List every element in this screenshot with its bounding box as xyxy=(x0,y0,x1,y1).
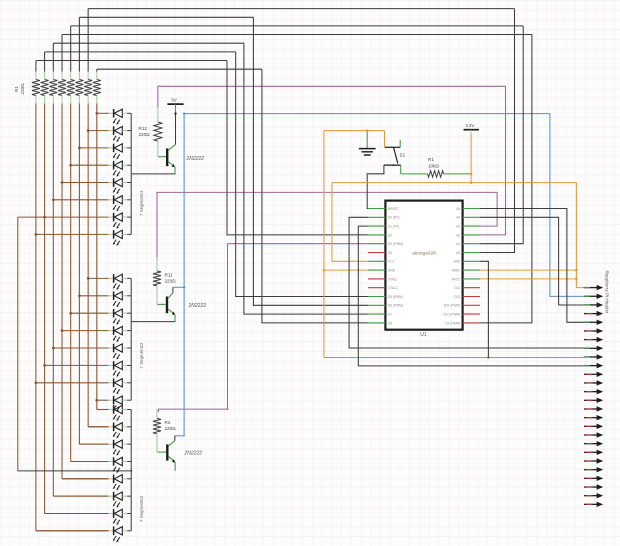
svg-text:AVCC: AVCC xyxy=(452,277,461,281)
transistor Q3 2N2222 xyxy=(157,441,175,463)
wire orange 3.3V drop xyxy=(470,134,472,183)
svg-text:D4: D4 xyxy=(388,251,392,255)
node orange junction xyxy=(575,278,578,281)
pin 2 left D0 (RX) xyxy=(368,216,385,218)
svg-text:10kΩ: 10kΩ xyxy=(428,164,439,169)
svg-text:A1: A1 xyxy=(456,242,460,246)
wire resistor lead xyxy=(44,96,46,104)
wire Q1 emitter lead xyxy=(174,167,176,174)
node gnd rail junction xyxy=(487,356,489,358)
wire resistor lead xyxy=(70,72,72,80)
pin 15 right D9 (PWM) xyxy=(463,322,480,324)
svg-text:D7: D7 xyxy=(388,313,392,317)
svg-text:2N2222: 2N2222 xyxy=(184,450,203,456)
svg-text:XTAL2: XTAL2 xyxy=(388,286,398,290)
node junction xyxy=(43,364,46,367)
svg-text:2N2222: 2N2222 xyxy=(188,303,207,309)
wire R12 top lead xyxy=(157,107,159,122)
wire segment-line net horizontal xyxy=(45,51,236,53)
pin 27 right A4 xyxy=(463,216,480,218)
node orange junction xyxy=(575,269,578,272)
wire xyxy=(87,9,89,72)
pin 1 left RESET xyxy=(368,208,385,210)
wire bus 5 vertical xyxy=(70,104,72,462)
wire anode display1 row6 xyxy=(53,199,108,201)
svg-text:D1 (TX): D1 (TX) xyxy=(388,225,399,229)
wire resistor lead xyxy=(96,72,98,80)
wire net seg to D9 xyxy=(480,35,532,323)
LED D1-2 xyxy=(109,126,132,142)
node junction xyxy=(52,198,55,201)
svg-text:D3 (PWM): D3 (PWM) xyxy=(388,242,403,246)
svg-text:D12: D12 xyxy=(454,295,460,299)
wire anode display3 row5 xyxy=(62,478,109,480)
LED D3-7 xyxy=(109,509,132,525)
LED D3-8 xyxy=(109,527,132,543)
resistor R1 unit 2 220 xyxy=(41,80,49,96)
LED D2-3 xyxy=(109,309,132,325)
node purple corner xyxy=(227,408,229,410)
wire orange to VCC xyxy=(332,183,368,262)
wire bus 7 vertical xyxy=(87,104,89,427)
wire R12 bottom lead xyxy=(157,141,159,157)
LED D1-5 xyxy=(109,178,132,194)
pin 28 right A5 xyxy=(463,208,480,210)
wire display2 common to Q2 emitter xyxy=(131,321,175,323)
node 5V junction xyxy=(174,112,176,114)
node blue junction Q2 xyxy=(183,286,185,288)
svg-text:5V: 5V xyxy=(172,98,177,103)
LED D2-7 xyxy=(109,379,132,395)
pin 8 left GND xyxy=(368,269,385,271)
transistor Q1 2N2222 xyxy=(158,145,176,168)
wire olive gnd rail to header xyxy=(324,357,584,359)
resistor R1 unit 3 220 xyxy=(49,80,57,96)
wire anode display1 row7 xyxy=(18,216,109,218)
svg-text:R1: R1 xyxy=(428,157,434,162)
wire anode display3 row4 xyxy=(71,460,109,462)
wire blue to Q3 collector xyxy=(175,435,185,437)
wire anode display2 row2 xyxy=(79,295,108,297)
wire Q1 collector xyxy=(175,114,177,145)
wire orange to GND pin xyxy=(324,269,368,271)
resistor R1 unit 7 220 xyxy=(84,80,92,96)
node junction xyxy=(78,147,81,150)
wire 3.3V lead xyxy=(470,130,472,134)
pin 19 right D13 xyxy=(463,287,480,289)
wire anode display2 row6 xyxy=(45,364,109,366)
resistor R12 220 xyxy=(154,122,162,141)
LED D3-4 xyxy=(109,457,132,473)
LED D3-2 xyxy=(109,423,132,439)
wire R11 bottom lead xyxy=(156,286,158,305)
LED D2-5 xyxy=(109,344,132,360)
wire orange AVCC xyxy=(480,278,577,280)
svg-text:220Ω: 220Ω xyxy=(139,132,151,137)
node junction xyxy=(95,399,98,402)
wire common display3 left xyxy=(18,470,131,472)
wire far-left vertical link xyxy=(17,217,19,471)
wire anode display1 row5 xyxy=(62,182,109,184)
node junction xyxy=(69,164,72,167)
LED D1-3 xyxy=(109,144,132,160)
svg-text:A2: A2 xyxy=(456,233,460,237)
ground symbol xyxy=(359,131,376,155)
header pin 1 arrow xyxy=(584,285,604,290)
wire anode display1 row3 xyxy=(79,147,108,149)
wire anode display1 row2 xyxy=(88,130,108,132)
wire orange to S1 xyxy=(384,131,386,148)
header pin 25 arrow xyxy=(584,493,603,498)
svg-text:D11 (PWM): D11 (PWM) xyxy=(444,304,460,308)
header pin 16 arrow xyxy=(584,415,603,420)
pin 10 left XTAL2 xyxy=(368,287,385,289)
wire blue to Q2 collector xyxy=(173,286,184,288)
wire to LED xyxy=(97,409,109,411)
node junction xyxy=(95,112,98,115)
header pin 8 arrow xyxy=(584,346,604,351)
wire segment-line net horizontal xyxy=(53,42,244,44)
wire anode display3 row7 xyxy=(45,512,109,514)
wire xyxy=(78,17,80,71)
wire net seg to D8 xyxy=(262,69,368,323)
wire bus 1 vertical xyxy=(35,104,37,531)
LED D2-8 xyxy=(109,396,132,412)
node junction xyxy=(87,277,90,280)
header pin 19 arrow xyxy=(584,441,603,446)
header pin 9 arrow xyxy=(584,354,604,359)
svg-text:D6 (PWM): D6 (PWM) xyxy=(388,304,403,308)
wire bus 4 vertical xyxy=(61,104,63,479)
wire cathode rail display2 xyxy=(130,278,132,400)
node junction xyxy=(61,329,64,332)
wire net seg to D5 xyxy=(236,52,368,297)
LED D3-3 xyxy=(109,440,132,456)
wire R2 bottom lead xyxy=(156,434,158,452)
svg-text:GND: GND xyxy=(453,260,461,264)
svg-text:R11: R11 xyxy=(165,272,174,277)
svg-text:R1: R1 xyxy=(14,86,19,92)
svg-text:D10 (PWM): D10 (PWM) xyxy=(444,313,461,317)
resistor R1 unit 6 220 xyxy=(75,80,83,96)
resistor R1 unit 5 220 xyxy=(67,80,75,96)
wire resistor lead xyxy=(78,72,80,80)
wire R2 top lead xyxy=(156,409,158,418)
pin 18 right D12 xyxy=(463,296,480,298)
node junction xyxy=(87,129,90,132)
pin 24 right A1 xyxy=(463,243,480,245)
wire anode display2 row8 xyxy=(97,399,109,401)
header pin 2 arrow xyxy=(584,294,604,299)
svg-text:A3: A3 xyxy=(456,225,460,229)
wire anode display1 row1 xyxy=(97,112,109,114)
wire resistor lead xyxy=(52,96,54,104)
LED D3-1 xyxy=(109,405,132,421)
svg-text:2N2222: 2N2222 xyxy=(186,156,205,162)
wire bus 8 vertical xyxy=(96,104,98,410)
svg-text:R2: R2 xyxy=(165,420,171,425)
wire anode display3 row6 xyxy=(53,495,108,497)
power symbol 3.3V xyxy=(464,123,479,130)
wire to LED xyxy=(45,512,109,514)
wire resistor lead xyxy=(70,96,72,104)
pin 9 left XTAL1 xyxy=(368,278,385,280)
svg-text:A4: A4 xyxy=(456,216,460,220)
wire orange 3.3V rail xyxy=(332,182,577,184)
svg-text:AREF: AREF xyxy=(452,269,461,273)
svg-text:A5: A5 xyxy=(456,207,460,211)
pin 5 left D3 (PWM) xyxy=(368,243,385,245)
svg-text:S1: S1 xyxy=(400,153,406,158)
svg-text:D13: D13 xyxy=(454,286,460,290)
header pin 20 arrow xyxy=(584,450,603,455)
wire orange gnd top xyxy=(324,130,385,132)
wire xyxy=(52,43,54,71)
svg-text:7 Segments2: 7 Segments2 xyxy=(139,342,144,368)
wire xyxy=(35,61,37,72)
pin 16 right D10 (PWM) xyxy=(463,313,480,315)
wire resistor lead xyxy=(35,72,37,80)
wire Q2 emitter lead xyxy=(174,315,176,322)
wire to LED xyxy=(79,443,108,445)
wire anode display3 row8 xyxy=(36,530,109,532)
wire xyxy=(44,52,46,72)
power symbol 5V xyxy=(167,98,183,114)
wire S1 to RESET xyxy=(367,165,384,208)
header pin 22 arrow xyxy=(584,467,603,472)
wire segment-line net horizontal xyxy=(79,16,253,18)
resistor R2 220 xyxy=(153,418,161,433)
LED D1-7 xyxy=(109,213,132,229)
wire to LED xyxy=(53,495,108,497)
wire purple net R12 to A2 xyxy=(158,86,506,235)
svg-text:D5 (PWM): D5 (PWM) xyxy=(388,295,403,299)
node junction xyxy=(78,294,81,297)
svg-text:D8: D8 xyxy=(388,321,392,325)
svg-text:220Ω: 220Ω xyxy=(165,426,177,431)
header pin 5 arrow xyxy=(584,320,604,325)
wire D0 to header xyxy=(349,217,583,348)
header pin 11 arrow xyxy=(584,372,603,377)
wire anode display3 row2 xyxy=(88,426,108,428)
header pin 3 arrow xyxy=(584,302,604,307)
IC U1 atmega328 xyxy=(385,201,462,330)
pin 12 left D6 (PWM) xyxy=(368,304,385,306)
node junction xyxy=(61,181,64,184)
wire anode display2 row4 xyxy=(62,330,109,332)
wire net seg to D7 xyxy=(244,43,368,314)
pin 26 right A3 xyxy=(463,225,480,227)
wire resistor lead xyxy=(87,72,89,80)
svg-text:R12: R12 xyxy=(139,126,148,131)
wire purple net R11 to A3 xyxy=(157,192,497,257)
wire R1 left lead xyxy=(401,173,428,175)
wire anode display2 row7 xyxy=(36,382,109,384)
node junction xyxy=(52,347,55,350)
node junction rail3 xyxy=(130,470,132,472)
pin 21 right AREF xyxy=(463,269,480,271)
switch S1 xyxy=(384,140,406,174)
node junction xyxy=(43,216,46,219)
header pin 23 arrow xyxy=(584,476,603,481)
wire segment-line net horizontal xyxy=(97,68,262,70)
wire purple net D3 to R2 xyxy=(158,244,368,412)
wire resistor lead xyxy=(61,72,63,80)
wire bus 6 vertical xyxy=(78,104,80,445)
svg-text:3.3V: 3.3V xyxy=(466,123,475,128)
transistor Q2 2N2222 xyxy=(157,293,175,315)
LED D2-1 xyxy=(109,274,132,290)
header pin 18 arrow xyxy=(584,432,603,437)
wire cathode rail display1 xyxy=(130,113,132,234)
LED D2-2 xyxy=(109,292,132,308)
wire R11 top lead xyxy=(156,258,158,271)
wire D1 to header xyxy=(358,226,583,366)
header pin 14 arrow xyxy=(584,398,603,403)
LED D2-6 xyxy=(109,361,132,377)
wire to LED xyxy=(62,478,109,480)
wire anode display1 row4 xyxy=(71,164,109,166)
pin 25 right A2 xyxy=(463,234,480,236)
header pin 21 arrow xyxy=(584,458,603,463)
wire R1 right lead xyxy=(444,173,472,175)
resistor R1 10k zigzag xyxy=(428,171,444,177)
pin 14 left D8 xyxy=(368,322,385,324)
wire GND right drop xyxy=(480,261,489,357)
pin 17 right D11 (PWM) xyxy=(463,304,480,306)
wire orange gnd vertical xyxy=(323,131,325,358)
svg-text:GND: GND xyxy=(388,269,396,273)
wire to LED xyxy=(36,530,109,532)
wire resistor lead xyxy=(87,96,89,104)
LED D1-8 xyxy=(109,230,132,246)
wire Q2 collector xyxy=(172,287,174,293)
svg-text:D0 (RX): D0 (RX) xyxy=(388,216,400,220)
svg-text:D9 (PWM): D9 (PWM) xyxy=(445,321,460,325)
svg-text:VCC: VCC xyxy=(388,260,395,264)
wire xyxy=(61,35,63,72)
wire display1 common to Q1 emitter xyxy=(131,173,175,175)
svg-text:atmega328: atmega328 xyxy=(412,251,436,256)
svg-text:A0: A0 xyxy=(456,251,460,255)
header pin 4 arrow xyxy=(584,311,603,316)
node junction xyxy=(35,233,38,236)
header pin 15 arrow xyxy=(584,406,603,411)
wire A5 to header xyxy=(480,209,584,323)
wire resistor lead xyxy=(44,72,46,80)
svg-text:U1: U1 xyxy=(420,332,427,338)
svg-text:7 Segments1: 7 Segments1 xyxy=(139,190,144,216)
header pin 10 arrow xyxy=(584,363,604,368)
wire to LED xyxy=(71,460,109,462)
wire segment-line net horizontal xyxy=(71,25,524,27)
wire net seg to D2 xyxy=(227,61,368,235)
wire to LED xyxy=(88,426,108,428)
node 3.3V rail junction xyxy=(470,181,473,184)
header pin 12 arrow xyxy=(584,380,603,385)
svg-text:220Ω: 220Ω xyxy=(165,279,177,284)
wire bus 2 vertical xyxy=(44,104,46,514)
resistor R11 220 xyxy=(153,271,161,286)
node orange junction xyxy=(323,269,326,272)
svg-text:Raspberry Pi Header: Raspberry Pi Header xyxy=(605,271,610,314)
LED D3-6 xyxy=(109,492,132,508)
wire xyxy=(70,26,72,72)
wire resistor lead xyxy=(35,96,37,104)
resistor R1 unit 8 220 xyxy=(93,80,101,96)
header pin 6 arrow xyxy=(584,328,603,333)
wire blue vertical collectors xyxy=(183,114,185,436)
svg-text:RESET: RESET xyxy=(388,207,399,211)
wire anode display3 row1 xyxy=(97,409,109,411)
wire orange AREF xyxy=(480,269,577,271)
pin 11 left D5 (PWM) xyxy=(368,296,385,298)
svg-text:XTAL1: XTAL1 xyxy=(388,277,398,281)
pin 22 right GND xyxy=(463,260,480,262)
wire anode display2 row1 xyxy=(88,277,108,279)
pin 7 left VCC xyxy=(368,260,385,262)
wire orange to header 3.3V xyxy=(576,183,583,288)
header pin 17 arrow xyxy=(584,424,603,429)
wire net seg to D6 xyxy=(253,17,368,305)
wire anode display2 row3 xyxy=(71,312,109,314)
node junction xyxy=(35,381,38,384)
LED D1-1 xyxy=(109,109,132,125)
wire Q3 emitter lead xyxy=(174,462,176,471)
node R1-3.3V junction xyxy=(470,173,473,176)
pin 20 right AVCC xyxy=(463,278,480,280)
wire resistor lead xyxy=(52,72,54,80)
wire resistor lead xyxy=(78,96,80,104)
wire resistor lead xyxy=(61,96,63,104)
pin 3 left D1 (TX) xyxy=(368,225,385,227)
wire net seg to A1 xyxy=(480,26,523,244)
wire xyxy=(96,69,98,71)
wire A4 to header xyxy=(480,217,584,305)
LED D3-5 xyxy=(109,475,132,491)
pin 23 right A0 xyxy=(463,252,480,254)
wire anode display3 row3 xyxy=(79,443,108,445)
wire anode display2 row5 xyxy=(53,347,108,349)
header pin 24 arrow xyxy=(584,484,603,489)
wire segment-line net horizontal xyxy=(88,8,514,10)
pin 13 left D7 xyxy=(368,313,385,315)
pin 4 left D2 xyxy=(368,234,385,236)
header pin 7 arrow xyxy=(584,337,603,342)
wire segment-line net horizontal xyxy=(36,60,227,62)
node blue junction xyxy=(183,112,185,114)
node junction xyxy=(69,312,72,315)
wire blue 5V to header xyxy=(184,114,583,297)
resistor R1 unit 4 220 xyxy=(58,80,66,96)
wire net seg to A0 xyxy=(480,9,515,253)
wire anode display1 row8 xyxy=(36,233,109,235)
wire Q3 collector xyxy=(174,436,176,441)
LED D1-4 xyxy=(109,161,132,177)
header pin 26 arrow xyxy=(584,502,603,507)
svg-text:7 Segments3: 7 Segments3 xyxy=(139,496,144,522)
svg-text:220Ω: 220Ω xyxy=(20,83,25,95)
node gnd junction xyxy=(366,129,369,132)
wire resistor lead xyxy=(96,96,98,104)
wire bus 3 vertical xyxy=(52,104,54,497)
resistor R1 unit 1 220 xyxy=(32,80,40,96)
LED D1-6 xyxy=(109,196,132,212)
svg-text:D2: D2 xyxy=(388,233,392,237)
pin 6 left D4 xyxy=(368,252,385,254)
wire segment-line net horizontal xyxy=(62,34,532,36)
wire cathode rail display3 xyxy=(130,410,132,531)
